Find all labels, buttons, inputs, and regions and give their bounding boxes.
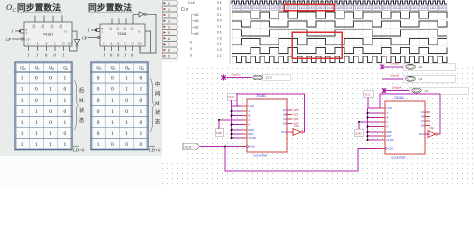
bus value boxes row bbox=[232, 5, 446, 10]
svg-text:B: B bbox=[387, 116, 389, 120]
svg-text:D: D bbox=[63, 43, 65, 46]
output waveform rows QA QB QC QD etc bbox=[232, 12, 447, 18]
svg-text:1: 1 bbox=[49, 142, 52, 148]
chip2 preset value labels 1 0 0 1 0 bbox=[103, 53, 134, 58]
svg-text:1111: 1111 bbox=[364, 6, 371, 10]
svg-text:Q: Q bbox=[51, 25, 54, 29]
svg-text:1001: 1001 bbox=[439, 6, 447, 10]
svg-text:0: 0 bbox=[125, 98, 128, 104]
svg-text:1101: 1101 bbox=[345, 6, 352, 10]
svg-text:1010: 1010 bbox=[317, 6, 325, 10]
svg-text:A: A bbox=[141, 68, 144, 71]
svg-text:CP: CP bbox=[6, 37, 12, 42]
svg-text:QC: QC bbox=[283, 117, 287, 121]
svg-text:Q: Q bbox=[60, 25, 63, 29]
svg-text:ENP: ENP bbox=[387, 130, 393, 134]
svg-text:1: 1 bbox=[49, 98, 52, 104]
svg-text:LD=0: LD=0 bbox=[72, 148, 85, 153]
scanned textbook page background bbox=[0, 0, 162, 156]
chip1 clock input CP bbox=[12, 38, 22, 40]
svg-text:dD: dD bbox=[195, 13, 200, 17]
svg-text:中: 中 bbox=[155, 80, 160, 88]
svg-text:1: 1 bbox=[111, 131, 114, 137]
svg-text:Output2: Output2 bbox=[390, 62, 400, 66]
svg-text:0 1: 0 1 bbox=[217, 7, 222, 11]
U2 input pin wires bbox=[359, 113, 380, 140]
svg-text:D: D bbox=[387, 125, 389, 129]
svg-text:CLRN: CLRN bbox=[387, 138, 394, 142]
svg-text:1: 1 bbox=[125, 131, 128, 137]
svg-text:3: 3 bbox=[168, 19, 170, 23]
svg-text:B: B bbox=[46, 43, 48, 46]
VCC source box for U1 bbox=[227, 93, 237, 100]
svg-text:1: 1 bbox=[49, 131, 52, 137]
svg-text:1100: 1100 bbox=[336, 6, 343, 10]
svg-text:C: C bbox=[103, 43, 105, 46]
svg-text:Output1: Output1 bbox=[232, 72, 242, 76]
svg-text:T: T bbox=[26, 32, 28, 36]
svg-text:dD: dD bbox=[195, 32, 200, 36]
svg-text:6: 6 bbox=[168, 37, 170, 41]
U2 feedback inverter U4A bbox=[428, 131, 436, 138]
U1 LOAD wire from VCC box bbox=[232, 100, 243, 106]
CLK on-page connector bbox=[183, 143, 200, 149]
svg-text:A: A bbox=[387, 111, 389, 115]
svg-text:0: 0 bbox=[35, 76, 38, 82]
probe connector row 1 (left) bbox=[221, 72, 290, 81]
svg-text:1: 1 bbox=[88, 28, 90, 33]
svg-text:QD: QD bbox=[421, 124, 425, 128]
svg-text:状: 状 bbox=[155, 108, 161, 116]
svg-text:CLRN: CLRN bbox=[249, 136, 256, 140]
svg-text:0: 0 bbox=[140, 98, 143, 104]
vertical annotation 中间M状态 beside table 2 bbox=[150, 78, 155, 132]
svg-text:VCC: VCC bbox=[228, 95, 234, 99]
74161 counter U1 body bbox=[242, 94, 292, 157]
svg-text:0: 0 bbox=[190, 54, 192, 58]
svg-text:后: 后 bbox=[79, 86, 84, 94]
GND box for U1 bbox=[218, 120, 220, 129]
svg-text:0 1: 0 1 bbox=[217, 31, 222, 35]
svg-text:态: 态 bbox=[155, 118, 160, 126]
svg-text:1: 1 bbox=[140, 87, 143, 93]
svg-text:0: 0 bbox=[64, 87, 67, 93]
svg-text:VCC: VCC bbox=[365, 93, 371, 97]
chip2 bottom pins bbox=[105, 46, 141, 51]
svg-text:1111: 1111 bbox=[233, 6, 240, 10]
svg-text:0: 0 bbox=[125, 109, 128, 115]
svg-text:1: 1 bbox=[64, 142, 67, 148]
svg-text:M: M bbox=[155, 101, 160, 107]
red highlight rectangle on waveforms bbox=[292, 32, 342, 58]
svg-text:CP: CP bbox=[26, 37, 30, 41]
svg-text:0: 0 bbox=[168, 2, 170, 6]
svg-text:1011: 1011 bbox=[327, 6, 334, 10]
truth table 1 (states 1001-1111) bbox=[15, 62, 72, 150]
chip1 preset value labels 1 1 0 0 1 bbox=[27, 53, 64, 58]
svg-text:1: 1 bbox=[168, 8, 170, 12]
svg-text:Output4: Output4 bbox=[392, 85, 402, 89]
svg-text:dD: dD bbox=[195, 26, 200, 30]
chip2 top gate (buffer) bbox=[133, 13, 139, 15]
svg-text:0: 0 bbox=[111, 142, 114, 148]
U2 data input bus vertical wire bbox=[367, 108, 369, 140]
chip1 bottom pins CR,D,C,B,A,LD bbox=[29, 46, 70, 51]
svg-text:T4161: T4161 bbox=[117, 32, 127, 36]
U1 feedback loop wire bbox=[237, 94, 305, 132]
svg-text:0: 0 bbox=[64, 131, 67, 137]
svg-text:1: 1 bbox=[27, 53, 29, 58]
svg-text:0: 0 bbox=[97, 120, 100, 126]
svg-text:8: 8 bbox=[168, 49, 170, 53]
svg-text:LON: LON bbox=[249, 104, 254, 108]
svg-text:1: 1 bbox=[140, 131, 143, 137]
svg-text:0: 0 bbox=[49, 109, 52, 115]
svg-text:1100: 1100 bbox=[271, 6, 278, 10]
svg-text:1: 1 bbox=[21, 98, 24, 104]
svg-text:D: D bbox=[99, 68, 102, 71]
svg-text:1: 1 bbox=[62, 53, 64, 58]
svg-text:0: 0 bbox=[97, 87, 100, 93]
svg-text:D: D bbox=[132, 43, 134, 46]
svg-text:0: 0 bbox=[49, 120, 52, 126]
svg-text:COUNTER: COUNTER bbox=[253, 154, 267, 158]
svg-text:1 1: 1 1 bbox=[217, 25, 222, 29]
svg-text:QD5: QD5 bbox=[294, 109, 300, 112]
analyzer panel separator line bbox=[229, 0, 231, 64]
svg-text:0: 0 bbox=[97, 109, 100, 115]
svg-text:Q: Q bbox=[33, 25, 36, 29]
svg-text:A: A bbox=[37, 43, 39, 46]
svg-text:1: 1 bbox=[35, 131, 38, 137]
analyzer channel terminal boxes 1-10 bbox=[162, 1, 177, 59]
svg-text:A: A bbox=[111, 43, 113, 46]
U2 RCO to inverter wire bbox=[428, 133, 430, 135]
svg-text:1: 1 bbox=[97, 142, 100, 148]
svg-text:RCO: RCO bbox=[281, 130, 287, 134]
U1 bus junction dots bbox=[218, 110, 233, 139]
svg-text:1: 1 bbox=[21, 87, 24, 93]
probe connector row C (right) bbox=[382, 85, 468, 94]
svg-text:0 1: 0 1 bbox=[217, 1, 222, 5]
svg-text:态: 态 bbox=[79, 116, 84, 124]
svg-text:C: C bbox=[125, 43, 127, 46]
svg-text:1111: 1111 bbox=[299, 6, 306, 10]
svg-text:C: C bbox=[38, 68, 40, 71]
svg-text:1: 1 bbox=[64, 98, 67, 104]
probe connector row A (right) bbox=[380, 62, 455, 71]
chip1 feedback inverter bbox=[76, 31, 78, 40]
svg-text:RCO: RCO bbox=[419, 132, 425, 136]
svg-text:状: 状 bbox=[79, 106, 85, 114]
U1 RCO to inverter wire bbox=[292, 131, 293, 133]
svg-text:CLK: CLK bbox=[185, 145, 193, 149]
clock waveform row bbox=[232, 1, 447, 4]
CLK wire to U1 bbox=[200, 146, 243, 148]
svg-text:0: 0 bbox=[35, 87, 38, 93]
svg-text:QD: QD bbox=[283, 122, 287, 126]
chip2 clock input CP bbox=[88, 37, 98, 39]
svg-text:1 1: 1 1 bbox=[217, 42, 222, 46]
U1 data input bus vertical wire bbox=[231, 106, 233, 138]
svg-text:COUNTER: COUNTER bbox=[391, 156, 405, 160]
U1 output net labels bbox=[294, 109, 300, 126]
svg-text:0: 0 bbox=[97, 98, 100, 104]
svg-text:1: 1 bbox=[36, 53, 38, 58]
truth table 2 (states 0010-1000) bbox=[91, 62, 148, 150]
svg-text:1: 1 bbox=[103, 53, 105, 58]
svg-text:QB: QB bbox=[421, 115, 425, 119]
svg-text:0: 0 bbox=[64, 109, 67, 115]
svg-text:0: 0 bbox=[190, 47, 192, 51]
svg-text:QA: QA bbox=[421, 110, 425, 114]
svg-text:0: 0 bbox=[140, 142, 143, 148]
svg-text:CLK: CLK bbox=[388, 147, 393, 151]
chip1 feedback wire to LD bbox=[70, 46, 78, 51]
svg-text:T: T bbox=[102, 31, 104, 34]
U2 bus junction dots bbox=[358, 112, 369, 141]
logic analyzer panel background bbox=[162, 0, 456, 65]
svg-text:B: B bbox=[128, 68, 130, 71]
svg-text:1010: 1010 bbox=[252, 6, 260, 10]
svg-text:1: 1 bbox=[21, 76, 24, 82]
VCC source box for U2 bbox=[364, 91, 374, 98]
svg-text:1 0: 1 0 bbox=[217, 48, 222, 52]
svg-text:1 0: 1 0 bbox=[217, 36, 222, 40]
svg-text:LD=0: LD=0 bbox=[148, 148, 161, 153]
svg-text:LD: LD bbox=[138, 43, 142, 46]
svg-text:间: 间 bbox=[155, 89, 160, 97]
svg-text:4: 4 bbox=[168, 25, 170, 29]
svg-text:同步置数法: 同步置数法 bbox=[17, 2, 61, 13]
svg-text:1: 1 bbox=[111, 98, 114, 104]
svg-text:同步置数法: 同步置数法 bbox=[88, 2, 132, 13]
svg-text:T4161: T4161 bbox=[43, 32, 53, 36]
svg-text:74161: 74161 bbox=[394, 96, 404, 100]
svg-text:O: O bbox=[6, 2, 12, 12]
svg-text:LON: LON bbox=[387, 106, 392, 110]
svg-text:5: 5 bbox=[168, 31, 170, 35]
svg-text:Q: Q bbox=[42, 25, 45, 29]
svg-text:1: 1 bbox=[49, 87, 52, 93]
GND box for U2 bbox=[358, 122, 360, 129]
svg-text:U4A: U4A bbox=[429, 127, 434, 130]
svg-text:1: 1 bbox=[21, 109, 24, 115]
U2 feedback loop wire bbox=[380, 94, 440, 134]
svg-text:C: C bbox=[249, 118, 251, 122]
svg-text:B: B bbox=[249, 114, 251, 118]
svg-text:74161: 74161 bbox=[256, 94, 266, 98]
svg-text:1: 1 bbox=[11, 29, 13, 34]
svg-text:1001: 1001 bbox=[373, 6, 381, 10]
svg-text:0: 0 bbox=[111, 76, 114, 82]
svg-text:1: 1 bbox=[35, 120, 38, 126]
svg-text:CP: CP bbox=[82, 36, 88, 41]
svg-text:1: 1 bbox=[64, 76, 67, 82]
svg-text:0: 0 bbox=[97, 131, 100, 137]
svg-text:1110: 1110 bbox=[420, 6, 427, 10]
svg-text:0: 0 bbox=[140, 76, 143, 82]
svg-text:Q3: Q3 bbox=[419, 77, 423, 81]
svg-text:0: 0 bbox=[125, 142, 128, 148]
svg-text:1001: 1001 bbox=[308, 6, 316, 10]
svg-text:1011: 1011 bbox=[392, 6, 399, 10]
svg-text:A: A bbox=[65, 68, 68, 71]
svg-text:1: 1 bbox=[64, 120, 67, 126]
svg-text:1: 1 bbox=[125, 76, 128, 82]
svg-text:1: 1 bbox=[21, 131, 24, 137]
chip1 left pins P,T tied to logic 1 bbox=[15, 30, 24, 34]
U2 LOAD wire from VCC box bbox=[368, 98, 380, 109]
svg-text:CLK: CLK bbox=[188, 1, 196, 5]
svg-text:1110: 1110 bbox=[289, 6, 296, 10]
svg-text:7: 7 bbox=[168, 43, 170, 47]
svg-text:ENT: ENT bbox=[387, 134, 393, 138]
svg-text:1: 1 bbox=[125, 120, 128, 126]
svg-text:1: 1 bbox=[124, 53, 126, 58]
CLK wire bottom loop to U2 bbox=[225, 147, 380, 172]
svg-text:D: D bbox=[249, 123, 251, 127]
svg-text:M: M bbox=[79, 98, 84, 104]
svg-text:A: A bbox=[249, 109, 251, 113]
svg-text:CLK: CLK bbox=[250, 145, 255, 149]
svg-text:1: 1 bbox=[35, 142, 38, 148]
svg-text:ENT: ENT bbox=[249, 132, 255, 136]
svg-text:QA: QA bbox=[283, 108, 287, 112]
svg-text:1010: 1010 bbox=[383, 6, 391, 10]
svg-text:B: B bbox=[118, 43, 120, 46]
red highlight rectangle on bus values bbox=[284, 4, 334, 10]
svg-text:Q1 0: Q1 0 bbox=[266, 76, 273, 80]
svg-text:1: 1 bbox=[140, 109, 143, 115]
svg-text:1101: 1101 bbox=[411, 6, 418, 10]
vertical annotation 后M状态 beside table 1 bbox=[74, 80, 79, 130]
analyzer terminal column dotted base bbox=[162, 59, 177, 61]
analyzer channel value digits column bbox=[217, 1, 222, 58]
svg-text:1: 1 bbox=[125, 87, 128, 93]
svg-text:1: 1 bbox=[111, 109, 114, 115]
svg-text:U3A: U3A bbox=[294, 125, 299, 128]
chip2 gate feedback loop wire bbox=[140, 14, 156, 53]
svg-text:Output3: Output3 bbox=[390, 74, 400, 78]
svg-text:1110: 1110 bbox=[355, 6, 362, 10]
waveform grid lines bbox=[232, 0, 447, 64]
svg-text:2: 2 bbox=[168, 14, 170, 18]
svg-text:QC: QC bbox=[421, 119, 425, 123]
svg-text:9: 9 bbox=[168, 55, 170, 59]
svg-text:QC5: QC5 bbox=[294, 113, 300, 116]
U1 input pin wires bbox=[219, 111, 242, 138]
svg-text:1001: 1001 bbox=[242, 6, 250, 10]
svg-text:1: 1 bbox=[21, 142, 24, 148]
svg-text:Q2: Q2 bbox=[419, 65, 423, 69]
svg-text:0 1: 0 1 bbox=[217, 13, 222, 17]
svg-text:1 1: 1 1 bbox=[217, 54, 222, 58]
svg-text:0: 0 bbox=[49, 76, 52, 82]
svg-text:QB5: QB5 bbox=[294, 118, 299, 121]
probe connector row B (right) bbox=[382, 74, 455, 83]
svg-text:1111: 1111 bbox=[430, 6, 437, 10]
IC chip T4161 (right diagram) body bbox=[100, 24, 145, 46]
74161 counter U2 body bbox=[380, 96, 430, 159]
svg-text:1: 1 bbox=[21, 120, 24, 126]
svg-text:0: 0 bbox=[35, 98, 38, 104]
svg-text:Q4: Q4 bbox=[425, 89, 429, 93]
IC chip T4161 (left diagram) body bbox=[24, 22, 72, 46]
svg-text:1: 1 bbox=[111, 120, 114, 126]
svg-text:0: 0 bbox=[97, 76, 100, 82]
svg-text:C: C bbox=[27, 43, 29, 46]
svg-text:LD: LD bbox=[68, 43, 72, 46]
svg-text:C: C bbox=[54, 43, 56, 46]
svg-text:ENP: ENP bbox=[249, 128, 255, 132]
chip2 top output pins bbox=[112, 19, 133, 25]
svg-text:0: 0 bbox=[190, 41, 192, 45]
svg-text:D: D bbox=[23, 68, 26, 71]
chip1 top output pins Q3 Q2 Q1 Q0 bbox=[35, 16, 62, 23]
svg-text:1100: 1100 bbox=[401, 6, 408, 10]
svg-text:C: C bbox=[387, 120, 389, 124]
svg-text:GND: GND bbox=[216, 131, 222, 135]
svg-text:0: 0 bbox=[111, 87, 114, 93]
svg-text:1011: 1011 bbox=[261, 6, 268, 10]
U1 feedback inverter U3A bbox=[293, 129, 301, 136]
svg-text:QB: QB bbox=[283, 113, 287, 117]
svg-text:GND: GND bbox=[355, 131, 361, 135]
svg-text:0: 0 bbox=[140, 120, 143, 126]
svg-text:B: B bbox=[52, 68, 54, 71]
chip2 left pins P,T tied to 1 bbox=[91, 29, 100, 32]
CLK branch junction dot bbox=[224, 146, 226, 148]
svg-text:C: C bbox=[114, 68, 116, 71]
svg-text:1: 1 bbox=[35, 109, 38, 115]
schematic dot grid bbox=[162, 68, 473, 184]
svg-text:0 0: 0 0 bbox=[217, 19, 222, 23]
svg-text:dD: dD bbox=[195, 19, 200, 23]
